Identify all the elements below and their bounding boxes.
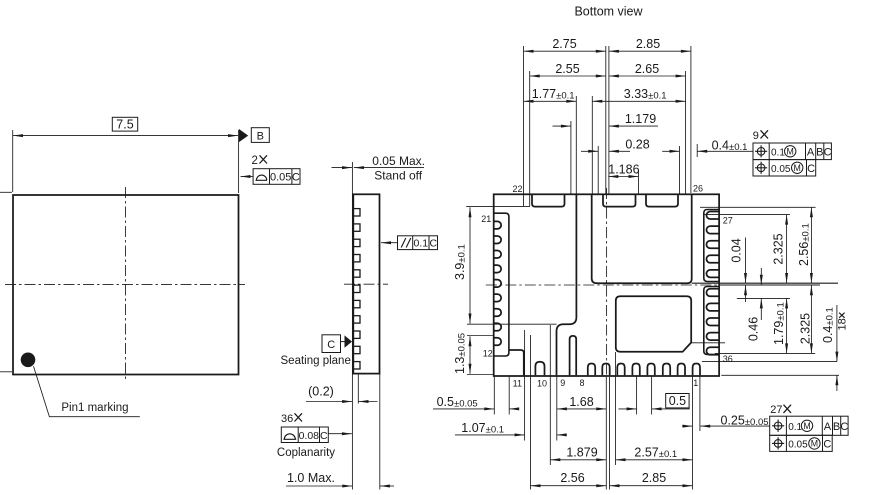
dim 2.75 bbox=[524, 50, 606, 52]
ext line x=699.9 below bbox=[699, 376, 701, 431]
svg-text:C: C bbox=[840, 421, 848, 433]
datum C filled triangle bbox=[341, 341, 345, 343]
svg-text:M: M bbox=[794, 163, 801, 173]
top view vertical centerline bbox=[125, 187, 127, 382]
side view centerline bbox=[344, 283, 388, 285]
left terminal zone outline bbox=[494, 213, 509, 356]
ext line x=638.5 bbox=[638, 171, 640, 195]
svg-text:9: 9 bbox=[560, 378, 565, 388]
dim 0.28 bbox=[581, 150, 598, 152]
svg-text:0.05 Max.: 0.05 Max. bbox=[372, 154, 425, 168]
pin 10 pad slot bbox=[535, 362, 544, 376]
seating plane line bbox=[351, 162, 353, 490]
ext line x=529.7 bbox=[529, 71, 531, 206]
dim (0.2) arrows bbox=[306, 401, 352, 403]
svg-text:B: B bbox=[816, 146, 823, 158]
9x position frame row1 bbox=[753, 143, 831, 160]
top pad 25 bbox=[646, 194, 678, 206]
centerline extension right bbox=[719, 284, 820, 286]
right terminal zone upper outline bbox=[704, 210, 719, 282]
dim 0.25 +/-0.05 leader bbox=[682, 425, 693, 427]
dim 2.65 bbox=[609, 75, 686, 77]
ext line x=615.5 below bbox=[615, 352, 617, 465]
svg-text:0.05: 0.05 bbox=[788, 439, 808, 450]
ext line x=494.3 below bbox=[493, 376, 495, 415]
svg-text:2.85: 2.85 bbox=[636, 37, 660, 51]
svg-text:Seating plane: Seating plane bbox=[281, 355, 351, 367]
datum B box bbox=[251, 128, 269, 143]
dim 2.85 bottom bbox=[610, 485, 693, 487]
standoff dim arrows bbox=[332, 167, 353, 169]
ext line x=685.6 bbox=[685, 71, 687, 195]
ext line x=690.9 bbox=[690, 46, 692, 193]
left pins 13-21 bbox=[494, 221, 501, 229]
svg-text:B: B bbox=[833, 421, 840, 433]
dim 1.179 bbox=[553, 125, 571, 127]
svg-text:27: 27 bbox=[723, 215, 733, 225]
dim 2.56 +/-0.1 bbox=[810, 207, 812, 283]
svg-text:C: C bbox=[327, 339, 335, 351]
svg-text:0.1: 0.1 bbox=[771, 147, 785, 158]
svg-text:0.46: 0.46 bbox=[747, 317, 761, 341]
pin 11 corner pad outline bbox=[509, 350, 524, 375]
svg-text:36: 36 bbox=[281, 413, 293, 425]
svg-text:10: 10 bbox=[537, 379, 547, 389]
dim 2.325 lower bbox=[810, 285, 812, 353]
chamfer edge extension bbox=[691, 342, 725, 344]
ext line x=592.3 bbox=[591, 96, 593, 195]
terminal inner edge extension bbox=[357, 374, 359, 404]
dim 1.79 +/-0.1 bbox=[786, 298, 788, 353]
ext line x=606.3 below bbox=[605, 377, 607, 490]
svg-text:0.04: 0.04 bbox=[729, 238, 743, 262]
svg-text:C: C bbox=[823, 438, 831, 450]
svg-text:0.1: 0.1 bbox=[413, 238, 428, 250]
svg-text:Coplanarity: Coplanarity bbox=[277, 447, 335, 459]
dim 0.46 bbox=[760, 268, 762, 285]
svg-text:27: 27 bbox=[770, 404, 782, 416]
svg-text:2.75: 2.75 bbox=[552, 37, 576, 51]
svg-text:1.879: 1.879 bbox=[566, 446, 597, 460]
ext line x=608.9 bbox=[608, 46, 610, 194]
ext line y=206.6 left bbox=[466, 206, 530, 208]
svg-text:1: 1 bbox=[693, 378, 698, 388]
dim 0.04 bbox=[745, 238, 747, 284]
9x position frame row2 bbox=[753, 160, 816, 176]
extension line for 7.5 dim left bbox=[12, 130, 14, 192]
svg-text:2.85: 2.85 bbox=[642, 471, 666, 485]
svg-text:Pin1 marking: Pin1 marking bbox=[61, 402, 128, 414]
ext line x=692.5 below bbox=[692, 376, 694, 490]
coplanarity frame 0.08 C bbox=[281, 427, 328, 443]
svg-text:22: 22 bbox=[512, 184, 522, 194]
body right edge extension bbox=[379, 374, 381, 490]
bottom view horizontal centerline bbox=[486, 284, 718, 286]
dim 2.325 upper bbox=[786, 215, 788, 283]
parallelism frame 0.1 C bbox=[398, 236, 438, 250]
svg-text:2.55: 2.55 bbox=[555, 62, 579, 76]
leader arrow from 0.05 frame bbox=[241, 176, 254, 178]
ext line x=570.9 bbox=[570, 121, 572, 195]
ext line x=697.2 bbox=[696, 144, 698, 157]
profile tolerance frame 0.05 C bbox=[253, 169, 300, 185]
ext line x=550.3 below bbox=[549, 325, 551, 465]
right terminal zone lower outline bbox=[704, 287, 719, 355]
svg-text:2.325: 2.325 bbox=[772, 233, 786, 264]
dim 1.77 +/-0.1 bbox=[524, 100, 577, 102]
dim 3.9 +/-0.1 bbox=[469, 207, 471, 323]
ext line y=353.4 bbox=[715, 352, 815, 354]
svg-text:7.5: 7.5 bbox=[116, 117, 133, 131]
svg-text:0.1: 0.1 bbox=[788, 422, 802, 433]
dim 0.5 +/-0.05 bbox=[433, 408, 494, 410]
ext line y=361.6 bbox=[702, 361, 837, 363]
dim 1.879 bbox=[550, 459, 606, 461]
svg-text:C: C bbox=[807, 163, 815, 175]
svg-text:18: 18 bbox=[836, 318, 848, 330]
ext line x=530.5 below bbox=[530, 335, 532, 490]
svg-text:1.68: 1.68 bbox=[569, 395, 593, 409]
pin 8 long pad slot bbox=[570, 336, 577, 375]
dim 2.85 bbox=[609, 50, 691, 52]
svg-text:9: 9 bbox=[753, 130, 759, 142]
leader arrow from parallelism frame bbox=[381, 242, 398, 244]
side view body outline bbox=[353, 194, 379, 373]
svg-text:(0.2): (0.2) bbox=[308, 384, 334, 398]
svg-text:1.0 Max.: 1.0 Max. bbox=[287, 471, 335, 485]
pin1 leader line bbox=[34, 366, 140, 416]
ext line y=207.3 bbox=[700, 206, 816, 208]
ext line y=335.5 left bbox=[467, 335, 494, 337]
central tongue outline bbox=[557, 194, 577, 375]
dim 1.0 Max arrows bbox=[286, 485, 352, 487]
ext line x=598.2 bbox=[597, 146, 599, 195]
svg-text:A: A bbox=[807, 146, 815, 158]
dim 1.68 bbox=[557, 408, 606, 410]
top view horizontal centerline bbox=[5, 283, 245, 285]
dim 0.4 +/-0.1 right bbox=[836, 305, 838, 362]
dim 1.3 +/-0.05 bbox=[469, 336, 471, 374]
svg-text:2.325: 2.325 bbox=[798, 313, 812, 344]
svg-text:11: 11 bbox=[513, 379, 522, 389]
svg-text:2: 2 bbox=[252, 155, 258, 167]
side view terminal square bbox=[353, 209, 360, 216]
svg-text:21: 21 bbox=[481, 214, 491, 224]
pad top edge extension bbox=[737, 297, 790, 299]
svg-text:Bottom view: Bottom view bbox=[574, 5, 643, 19]
dim 3.33 +/-0.1 bbox=[592, 100, 685, 102]
dim 1.186 bbox=[608, 176, 638, 178]
bottom pins 7-1 bbox=[588, 364, 595, 376]
ext line x=609.5 below bbox=[609, 377, 611, 490]
svg-text:1.186: 1.186 bbox=[608, 163, 639, 177]
leader arrow from coplanarity frame bbox=[328, 433, 352, 435]
svg-text:B: B bbox=[257, 130, 264, 142]
svg-text:0.28: 0.28 bbox=[625, 137, 649, 151]
svg-text:Stand off: Stand off bbox=[374, 168, 422, 182]
svg-text:2.56: 2.56 bbox=[560, 471, 584, 485]
lower-right exposed pad bbox=[616, 296, 691, 352]
svg-text:C: C bbox=[320, 430, 328, 442]
dimension 7.5 line bbox=[13, 135, 238, 137]
pad bottom edge extension bbox=[692, 282, 838, 284]
top view package body outline bbox=[13, 195, 239, 375]
dim 0.5 pitch arrows bbox=[619, 408, 637, 410]
dim 2.57 +/-0.1 bbox=[616, 459, 693, 461]
svg-text:C: C bbox=[292, 172, 300, 184]
datum C box bbox=[322, 335, 341, 353]
svg-text:8: 8 bbox=[579, 378, 584, 388]
svg-text:0.08: 0.08 bbox=[299, 430, 320, 442]
right pins 27-36 bbox=[706, 212, 719, 220]
dim 2.56 bbox=[531, 485, 607, 487]
svg-text:C: C bbox=[430, 238, 438, 250]
svg-text:M: M bbox=[811, 439, 818, 449]
ext line y=374.5 left bbox=[467, 374, 494, 376]
dim 2.55 bbox=[530, 75, 606, 77]
ext line x=556.8 below bbox=[556, 376, 558, 441]
datum B filled triangle bbox=[239, 129, 248, 142]
svg-text:26: 26 bbox=[693, 183, 703, 193]
svg-text:0.5: 0.5 bbox=[669, 394, 686, 408]
body bottom edge extension bbox=[721, 374, 839, 376]
top pad 24 bbox=[603, 194, 636, 206]
ext line x=524.6 below bbox=[524, 330, 526, 441]
ext line y=324.2 left (ledge) bbox=[467, 323, 557, 325]
extension line bottom-left edge bbox=[0, 371, 12, 373]
ext line x=605.8 bbox=[605, 46, 607, 194]
svg-text:M: M bbox=[787, 147, 794, 157]
ext line x=679.5 bbox=[679, 146, 681, 195]
ext line x=523.5 bbox=[523, 46, 525, 206]
ext line x=636.6 below bbox=[636, 376, 638, 415]
ext line x=651.6 below bbox=[651, 376, 653, 415]
ext line x=576.3 bbox=[575, 96, 577, 195]
svg-text:12: 12 bbox=[483, 348, 493, 358]
svg-text:0.05: 0.05 bbox=[270, 172, 291, 184]
svg-text:0.05: 0.05 bbox=[771, 164, 791, 175]
dim 1.07 +/-0.1 bbox=[455, 434, 525, 436]
extension line for 7.5 dim right bbox=[238, 130, 240, 193]
svg-text:M: M bbox=[803, 421, 810, 431]
pin1 marking dot bbox=[21, 353, 36, 368]
svg-text:C: C bbox=[824, 146, 832, 158]
upper-right exposed pad bbox=[592, 194, 692, 283]
extension line top-left edge bbox=[0, 191, 12, 193]
svg-text:A: A bbox=[824, 421, 832, 433]
dim 0.5 pitch boxed text bbox=[666, 394, 689, 408]
svg-text:1.179: 1.179 bbox=[625, 112, 656, 126]
ext line x=509.2 below bbox=[508, 376, 510, 415]
dim 0.4 +/-0.1 top bbox=[662, 150, 679, 152]
bottom view vertical centerline bbox=[606, 188, 608, 377]
top pad 23 bbox=[532, 194, 565, 206]
bottom view body outline bbox=[494, 194, 719, 376]
svg-text:36: 36 bbox=[723, 354, 733, 364]
dimension 7.5 boxed text bbox=[112, 117, 137, 131]
27x position frame row2 bbox=[770, 435, 833, 451]
ext line y=214.6 bbox=[704, 214, 790, 216]
svg-text:2.65: 2.65 bbox=[635, 62, 659, 76]
27x position frame row1 bbox=[770, 416, 848, 435]
